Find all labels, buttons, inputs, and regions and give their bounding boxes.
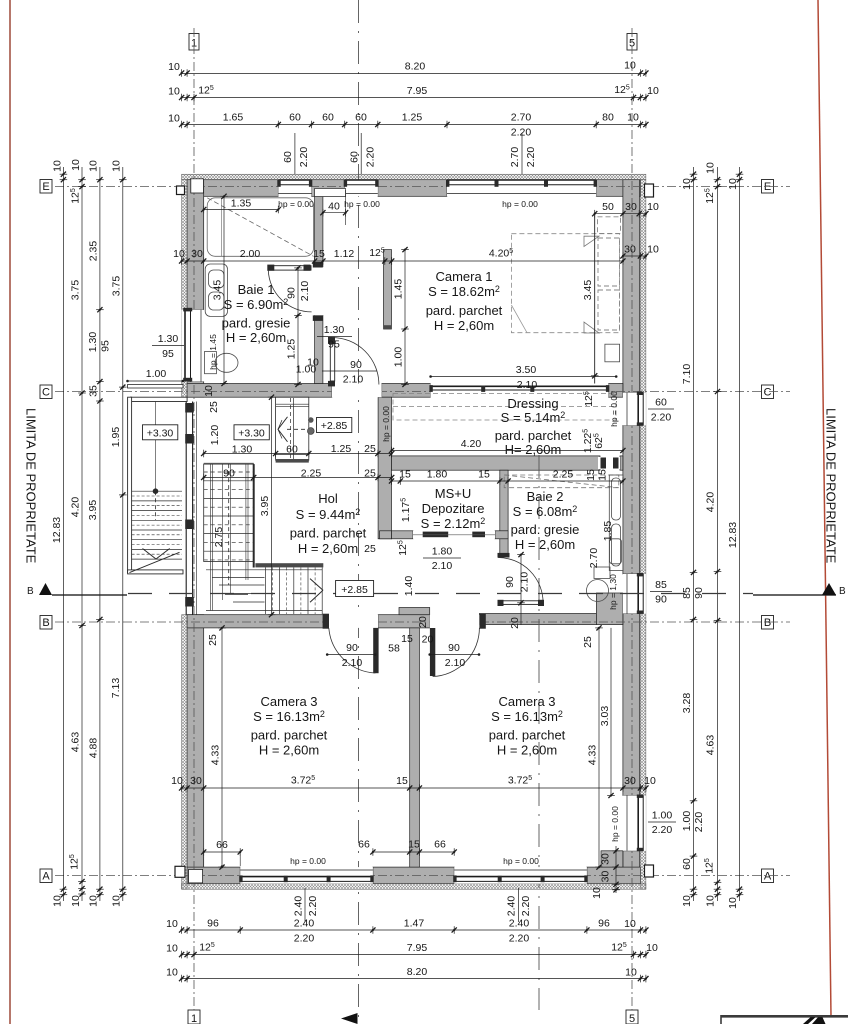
svg-text:10: 10: [727, 897, 739, 909]
svg-text:2.10: 2.10: [432, 560, 453, 572]
svg-text:60: 60: [286, 444, 298, 456]
axis label B right: [762, 616, 774, 630]
svg-text:20: 20: [509, 617, 521, 629]
svg-text:10: 10: [171, 775, 183, 787]
dim 90/2.10 camera3 left door: [326, 642, 377, 669]
svg-text:3.75: 3.75: [111, 276, 123, 297]
svg-text:10: 10: [624, 918, 636, 930]
door camera3 right (90): [430, 614, 486, 677]
svg-text:10: 10: [203, 385, 215, 397]
svg-text:95: 95: [162, 348, 174, 360]
svg-text:2.20: 2.20: [307, 896, 319, 917]
svg-text:B: B: [27, 586, 34, 597]
svg-text:10: 10: [52, 160, 64, 172]
B row labels: [207, 616, 594, 654]
svg-text:B: B: [42, 617, 49, 629]
svg-text:hp = 0.00: hp = 0.00: [503, 856, 539, 866]
right dim column 2: [693, 162, 721, 907]
dim 3.50/2.10 dressing window: [429, 364, 617, 391]
dim 1.80/2.10 ms+u door: [423, 546, 461, 573]
svg-text:+3.30: +3.30: [238, 428, 265, 440]
svg-text:4.20: 4.20: [705, 492, 717, 513]
dim 3.95 hol: [259, 395, 275, 618]
svg-text:90: 90: [346, 642, 358, 654]
rainwater pipe bottom-left: [175, 866, 185, 877]
svg-text:3.03: 3.03: [599, 706, 611, 727]
cabinet baie2: [609, 475, 623, 571]
insulation right: [640, 180, 646, 890]
baie2 rotated dims: [588, 521, 618, 610]
svg-text:Camera 3: Camera 3: [260, 694, 317, 709]
svg-text:2.10: 2.10: [299, 281, 311, 302]
svg-text:96: 96: [598, 918, 610, 930]
svg-text:1.45: 1.45: [393, 279, 405, 300]
top window label pair 1: [282, 133, 310, 174]
svg-text:MS+U: MS+U: [435, 486, 471, 501]
svg-text:2.25: 2.25: [553, 469, 574, 481]
window bottom right (2.40): [453, 867, 588, 884]
door camera3 left (90): [323, 614, 379, 674]
axis label E left: [40, 180, 52, 194]
svg-text:30: 30: [624, 244, 636, 256]
svg-text:10: 10: [168, 113, 180, 125]
svg-text:10: 10: [646, 942, 658, 954]
svg-text:+2.85: +2.85: [321, 420, 348, 432]
wall hol east (C to ms+u): [378, 397, 391, 539]
svg-text:2.10: 2.10: [445, 657, 466, 669]
svg-text:H = 2,60m: H = 2,60m: [497, 743, 557, 758]
door baie2 (90): [498, 553, 545, 606]
svg-text:Camera 1: Camera 1: [435, 269, 492, 284]
svg-text:25: 25: [364, 543, 376, 555]
svg-text:1.25: 1.25: [286, 339, 298, 360]
svg-text:1.35: 1.35: [231, 198, 252, 210]
svg-text:3.50: 3.50: [516, 364, 537, 376]
svg-text:A: A: [764, 871, 772, 883]
axis label C left: [40, 385, 52, 399]
room label baie2: [511, 489, 580, 552]
svg-text:4.63: 4.63: [705, 735, 717, 756]
wall bottom (segments between windows): [187, 867, 240, 884]
window bottom left (2.40): [239, 867, 373, 884]
svg-text:E: E: [42, 181, 49, 193]
svg-text:10: 10: [166, 967, 178, 979]
svg-text:25: 25: [208, 401, 220, 413]
wall B east segment: [479, 614, 596, 625]
svg-text:40: 40: [328, 201, 340, 213]
svg-text:12.83: 12.83: [51, 517, 63, 543]
left dim column 3: [87, 160, 112, 907]
dim 66/15/66 bottom middle: [358, 839, 457, 856]
wall B west segment: [187, 615, 329, 628]
corner detail top-left: [191, 179, 204, 193]
bottom dim row 7.95: [166, 942, 658, 959]
svg-text:4.63: 4.63: [70, 732, 82, 753]
svg-text:10: 10: [168, 86, 180, 98]
svg-text:pard. parchet: pard. parchet: [426, 303, 503, 318]
hp labels top windows: [278, 199, 538, 209]
dim 60/2.20 right window C: [648, 397, 674, 424]
svg-text:90: 90: [223, 468, 235, 480]
svg-text:1: 1: [191, 1013, 197, 1024]
right dim column 3: [727, 167, 743, 909]
wall dressing south: [392, 456, 601, 470]
wall C (corridor/dressing band): [187, 384, 332, 398]
svg-text:2.20: 2.20: [520, 896, 532, 917]
svg-text:S = 16.13m2: S = 16.13m2: [253, 709, 325, 724]
vanity baie1: [205, 264, 227, 316]
svg-text:S = 2.12m2: S = 2.12m2: [421, 516, 486, 531]
svg-text:20: 20: [422, 634, 434, 646]
svg-text:1.20: 1.20: [209, 425, 221, 446]
svg-text:2.20: 2.20: [525, 147, 537, 168]
dim 3.45 wardrobe camera1: [582, 212, 599, 383]
svg-text:30: 30: [624, 775, 636, 787]
svg-text:10: 10: [168, 61, 180, 73]
svg-text:3.95: 3.95: [259, 496, 271, 517]
top window label pair 2: [349, 133, 377, 174]
hp labels bottom windows: [290, 856, 539, 866]
dim 90/2.10 camera3 right door: [428, 642, 480, 669]
axis label C right: [762, 385, 774, 399]
left dim column 4: [110, 160, 127, 907]
exterior stair treads: [130, 402, 183, 573]
door camera1 (90): [328, 337, 382, 397]
svg-text:10: 10: [647, 244, 659, 256]
svg-text:H = 2,60m: H = 2,60m: [298, 541, 358, 556]
interior stair upper flight: [276, 397, 315, 462]
svg-text:25: 25: [207, 634, 219, 646]
svg-text:H = 2,60m: H = 2,60m: [434, 318, 494, 333]
svg-text:1.85: 1.85: [602, 521, 614, 542]
room label camera3 left: [251, 694, 328, 758]
right window 1.00/2.20: [648, 810, 676, 837]
dim 30/30/10 bottom right corner: [591, 846, 620, 899]
svg-text:5: 5: [629, 1013, 635, 1024]
svg-text:90: 90: [655, 594, 667, 606]
svg-text:8.20: 8.20: [407, 966, 428, 978]
right dim column 1: [681, 167, 697, 907]
svg-text:2.40: 2.40: [293, 896, 305, 917]
svg-text:2.70: 2.70: [511, 112, 532, 124]
svg-text:25: 25: [582, 636, 594, 648]
bottom dim row 8.20: [166, 966, 648, 982]
svg-text:10: 10: [627, 112, 639, 124]
dim 4.20 dressing: [389, 438, 626, 454]
svg-text:2.00: 2.00: [240, 248, 261, 260]
dim 85/90 right wall: [650, 579, 672, 606]
svg-text:66: 66: [434, 839, 446, 851]
svg-text:2.40: 2.40: [509, 918, 530, 930]
svg-text:30: 30: [190, 775, 202, 787]
svg-text:10: 10: [647, 201, 659, 213]
svg-text:4.88: 4.88: [88, 738, 100, 759]
label 1.30/95 exterior left: [152, 333, 184, 360]
insulation left upper: [182, 180, 188, 398]
svg-text:2.40: 2.40: [506, 896, 518, 917]
svg-text:90: 90: [448, 642, 460, 654]
window right baie2 (85): [623, 573, 646, 614]
wall ms+u / baie2: [500, 470, 508, 556]
svg-text:1.40: 1.40: [403, 576, 415, 597]
svg-text:2.20: 2.20: [365, 147, 377, 168]
title block: [721, 1015, 848, 1024]
svg-text:2.20: 2.20: [651, 412, 672, 424]
svg-text:H = 2,60m: H = 2,60m: [259, 743, 319, 758]
svg-text:60: 60: [681, 858, 693, 870]
insulation top: [182, 174, 646, 180]
toilet baie1: [205, 352, 239, 374]
svg-text:2.70: 2.70: [509, 147, 521, 168]
dim row hol y480: [201, 468, 394, 482]
svg-text:60: 60: [322, 112, 334, 124]
bottom window label pair right: [506, 888, 533, 922]
svg-text:hp = 0.00: hp = 0.00: [278, 199, 314, 209]
beam under stairs: [255, 563, 323, 567]
rainwater pipe bottom-right: [645, 865, 654, 877]
svg-text:10: 10: [681, 895, 693, 907]
svg-text:60: 60: [349, 151, 361, 163]
svg-text:1.80: 1.80: [432, 546, 453, 558]
wall between camera3 rooms: [410, 628, 420, 867]
svg-text:1.30: 1.30: [232, 444, 253, 456]
dim 50/30/10 top right: [592, 201, 659, 218]
svg-text:hp = 0.00: hp = 0.00: [381, 406, 391, 442]
svg-text:1.47: 1.47: [404, 918, 425, 930]
svg-text:60: 60: [289, 112, 301, 124]
svg-text:B: B: [839, 586, 846, 597]
svg-text:pard. parchet: pard. parchet: [495, 428, 572, 443]
dim row 3.72 y788: [171, 775, 656, 792]
axis E horizontal: [55, 186, 790, 188]
svg-text:25: 25: [364, 468, 376, 480]
dim 4.33 camera3 left: [210, 625, 226, 869]
svg-text:95: 95: [100, 340, 112, 352]
shower baie1: [207, 198, 313, 256]
property line left: [9, 0, 11, 1024]
svg-text:10: 10: [166, 918, 178, 930]
dim 4.20_5 camera1: [392, 248, 626, 265]
wall left upper (E-C): [187, 180, 204, 310]
dim 30/10 right y256: [620, 244, 659, 260]
terrace south edge: [128, 570, 183, 574]
svg-text:10: 10: [111, 160, 123, 172]
axis label B left: [40, 616, 52, 630]
survey point B right: [753, 583, 846, 597]
dressing right small dims: [381, 391, 619, 453]
svg-text:H= 2,60m: H= 2,60m: [505, 442, 562, 457]
svg-text:15: 15: [408, 839, 420, 851]
svg-text:pard. parchet: pard. parchet: [290, 526, 367, 541]
top dim row segments: [168, 112, 648, 139]
svg-text:Dressing: Dressing: [507, 396, 558, 411]
svg-text:8.20: 8.20: [405, 61, 426, 73]
door ms+u sliding (1.80): [413, 531, 495, 539]
corner detail bottom-left: [189, 869, 203, 883]
svg-text:10: 10: [166, 943, 178, 955]
room label ms+u: [421, 486, 486, 531]
dim row ms+u y481: [389, 469, 626, 485]
svg-text:10: 10: [111, 895, 123, 907]
exterior stair start dot: [153, 488, 159, 494]
svg-text:10: 10: [70, 159, 82, 171]
svg-text:10: 10: [625, 967, 637, 979]
level box +3.30 terrace: [143, 425, 178, 440]
svg-text:2.10: 2.10: [517, 379, 538, 391]
svg-text:C: C: [42, 387, 50, 399]
dim 66 bottom left: [201, 839, 243, 868]
svg-text:1.30: 1.30: [87, 332, 99, 353]
svg-text:pard. gresie: pard. gresie: [511, 522, 580, 537]
svg-text:90: 90: [504, 576, 516, 588]
svg-text:B: B: [764, 617, 771, 629]
closet baie2 dashed: [504, 475, 619, 488]
svg-text:2.10: 2.10: [342, 657, 363, 669]
svg-text:S = 16.13m2: S = 16.13m2: [491, 709, 563, 724]
bottom dim row segments: [166, 918, 648, 945]
svg-text:2.20: 2.20: [511, 127, 532, 139]
wall left lower (B-A): [187, 615, 204, 884]
svg-text:66: 66: [216, 839, 228, 851]
axis label 5 bottom: [626, 1010, 638, 1024]
dim 1.35 baie1 top: [201, 198, 281, 214]
axis A horizontal: [55, 875, 790, 877]
svg-text:10: 10: [70, 895, 82, 907]
svg-text:7.13: 7.13: [110, 678, 122, 699]
wall baie2 corner block: [596, 593, 623, 625]
room label camera1: [426, 269, 503, 333]
wall ms+u south: [392, 531, 414, 539]
svg-text:pard. gresie: pard. gresie: [222, 316, 291, 331]
wall stub above B middle: [399, 608, 430, 615]
interior stair lower flight: [204, 463, 254, 610]
level box +2.85 lower: [336, 581, 374, 597]
svg-text:LIMITA DE PROPRIETATE: LIMITA DE PROPRIETATE: [824, 408, 839, 564]
bottom window label pair left: [293, 888, 320, 922]
landing small rotated dims: [203, 385, 221, 445]
svg-text:hp = 0.00: hp = 0.00: [610, 806, 620, 842]
svg-text:LIMITA DE PROPRIETATE: LIMITA DE PROPRIETATE: [24, 408, 39, 564]
svg-text:7.95: 7.95: [407, 942, 428, 954]
dim 90/2.10 camera1 door: [322, 359, 377, 386]
axis label 5 top: [627, 34, 637, 51]
svg-text:2.35: 2.35: [88, 241, 100, 262]
axis label E right: [762, 180, 774, 194]
wall stub camera1: [384, 250, 392, 329]
svg-text:2.20: 2.20: [693, 812, 705, 833]
room label hol: [290, 491, 367, 556]
svg-text:3.28: 3.28: [681, 693, 693, 714]
dim row y261 left (10/30/2.00/15/1.12/12.5): [173, 247, 394, 265]
svg-text:10: 10: [173, 248, 185, 260]
wall baie1 east: [315, 196, 323, 266]
svg-text:2.10: 2.10: [519, 572, 531, 593]
svg-text:Baie 2: Baie 2: [527, 489, 564, 504]
svg-text:10: 10: [681, 178, 693, 190]
svg-text:4.33: 4.33: [587, 745, 599, 766]
axis 1 vertical: [193, 28, 195, 1010]
svg-text:10: 10: [647, 85, 659, 97]
svg-text:66: 66: [358, 839, 370, 851]
left dim column 2: [69, 159, 86, 907]
svg-text:20: 20: [417, 616, 429, 628]
sink baie2: [610, 539, 622, 564]
svg-text:hp = 0.00: hp = 0.00: [609, 391, 619, 427]
axis x539 vertical: [538, 455, 540, 1010]
axis 5 vertical: [631, 28, 633, 1010]
svg-text:15: 15: [585, 469, 597, 481]
svg-text:pard. parchet: pard. parchet: [489, 728, 566, 743]
svg-text:hp = 0.00: hp = 0.00: [344, 199, 380, 209]
top dim row 7.95: [168, 84, 659, 101]
terrace north edge: [131, 397, 188, 401]
svg-text:3.45: 3.45: [582, 280, 594, 301]
svg-text:1.25: 1.25: [402, 112, 423, 124]
toilet baie2: [587, 567, 611, 602]
window left baie1 (1.30): [182, 308, 204, 382]
svg-text:2.75: 2.75: [213, 527, 225, 548]
window top 3 (2.70): [446, 180, 597, 197]
insulation bottom: [182, 884, 646, 890]
dim 90/2.10 baie1 door rotated: [286, 265, 312, 387]
svg-text:10: 10: [307, 357, 319, 369]
axis C horizontal: [55, 391, 790, 393]
dim 4.33/3.03 camera3 right: [587, 625, 615, 869]
svg-text:1.00: 1.00: [393, 347, 405, 368]
svg-text:hp = 0.00: hp = 0.00: [502, 199, 538, 209]
svg-text:96: 96: [207, 918, 219, 930]
left dim column 1 (12.83): [51, 160, 67, 907]
svg-text:1.00: 1.00: [652, 810, 673, 822]
svg-text:Baie 1: Baie 1: [238, 282, 275, 297]
svg-text:95: 95: [328, 339, 340, 351]
window C wall dressing (3.50): [429, 384, 609, 398]
svg-text:15: 15: [313, 248, 325, 260]
svg-text:C: C: [764, 387, 772, 399]
wall right full: [623, 180, 640, 393]
svg-text:Camera 3: Camera 3: [498, 694, 555, 709]
svg-text:1.80: 1.80: [427, 469, 448, 481]
axis label 1 top: [189, 34, 199, 51]
svg-text:1.00: 1.00: [146, 368, 167, 380]
svg-text:7.95: 7.95: [407, 85, 428, 97]
label 1.30/95 window left: [317, 324, 352, 351]
closet dressing dashed: [393, 394, 616, 421]
svg-text:2.40: 2.40: [294, 918, 315, 930]
svg-text:Depozitare: Depozitare: [422, 501, 485, 516]
svg-text:2.20: 2.20: [652, 824, 673, 836]
svg-text:1.00: 1.00: [681, 811, 693, 832]
svg-text:10: 10: [705, 162, 717, 174]
svg-text:10: 10: [624, 60, 636, 72]
dim 3.45 baie1: [212, 194, 228, 386]
door baie1 (90): [267, 262, 323, 321]
svg-text:3.95: 3.95: [87, 500, 99, 521]
svg-text:1.65: 1.65: [223, 112, 244, 124]
svg-text:30: 30: [600, 871, 612, 883]
svg-text:10: 10: [705, 895, 717, 907]
axis mid vertical: [358, 0, 360, 1024]
svg-text:30: 30: [191, 248, 203, 260]
svg-text:pard. parchet: pard. parchet: [251, 728, 328, 743]
niche top corridor: [315, 189, 346, 197]
svg-text:60: 60: [355, 112, 367, 124]
svg-text:10: 10: [644, 775, 656, 787]
svg-text:30: 30: [600, 853, 612, 865]
section marker mid bottom: [341, 1013, 358, 1024]
svg-text:S = 5.14m2: S = 5.14m2: [501, 410, 566, 425]
svg-text:85: 85: [655, 579, 667, 591]
